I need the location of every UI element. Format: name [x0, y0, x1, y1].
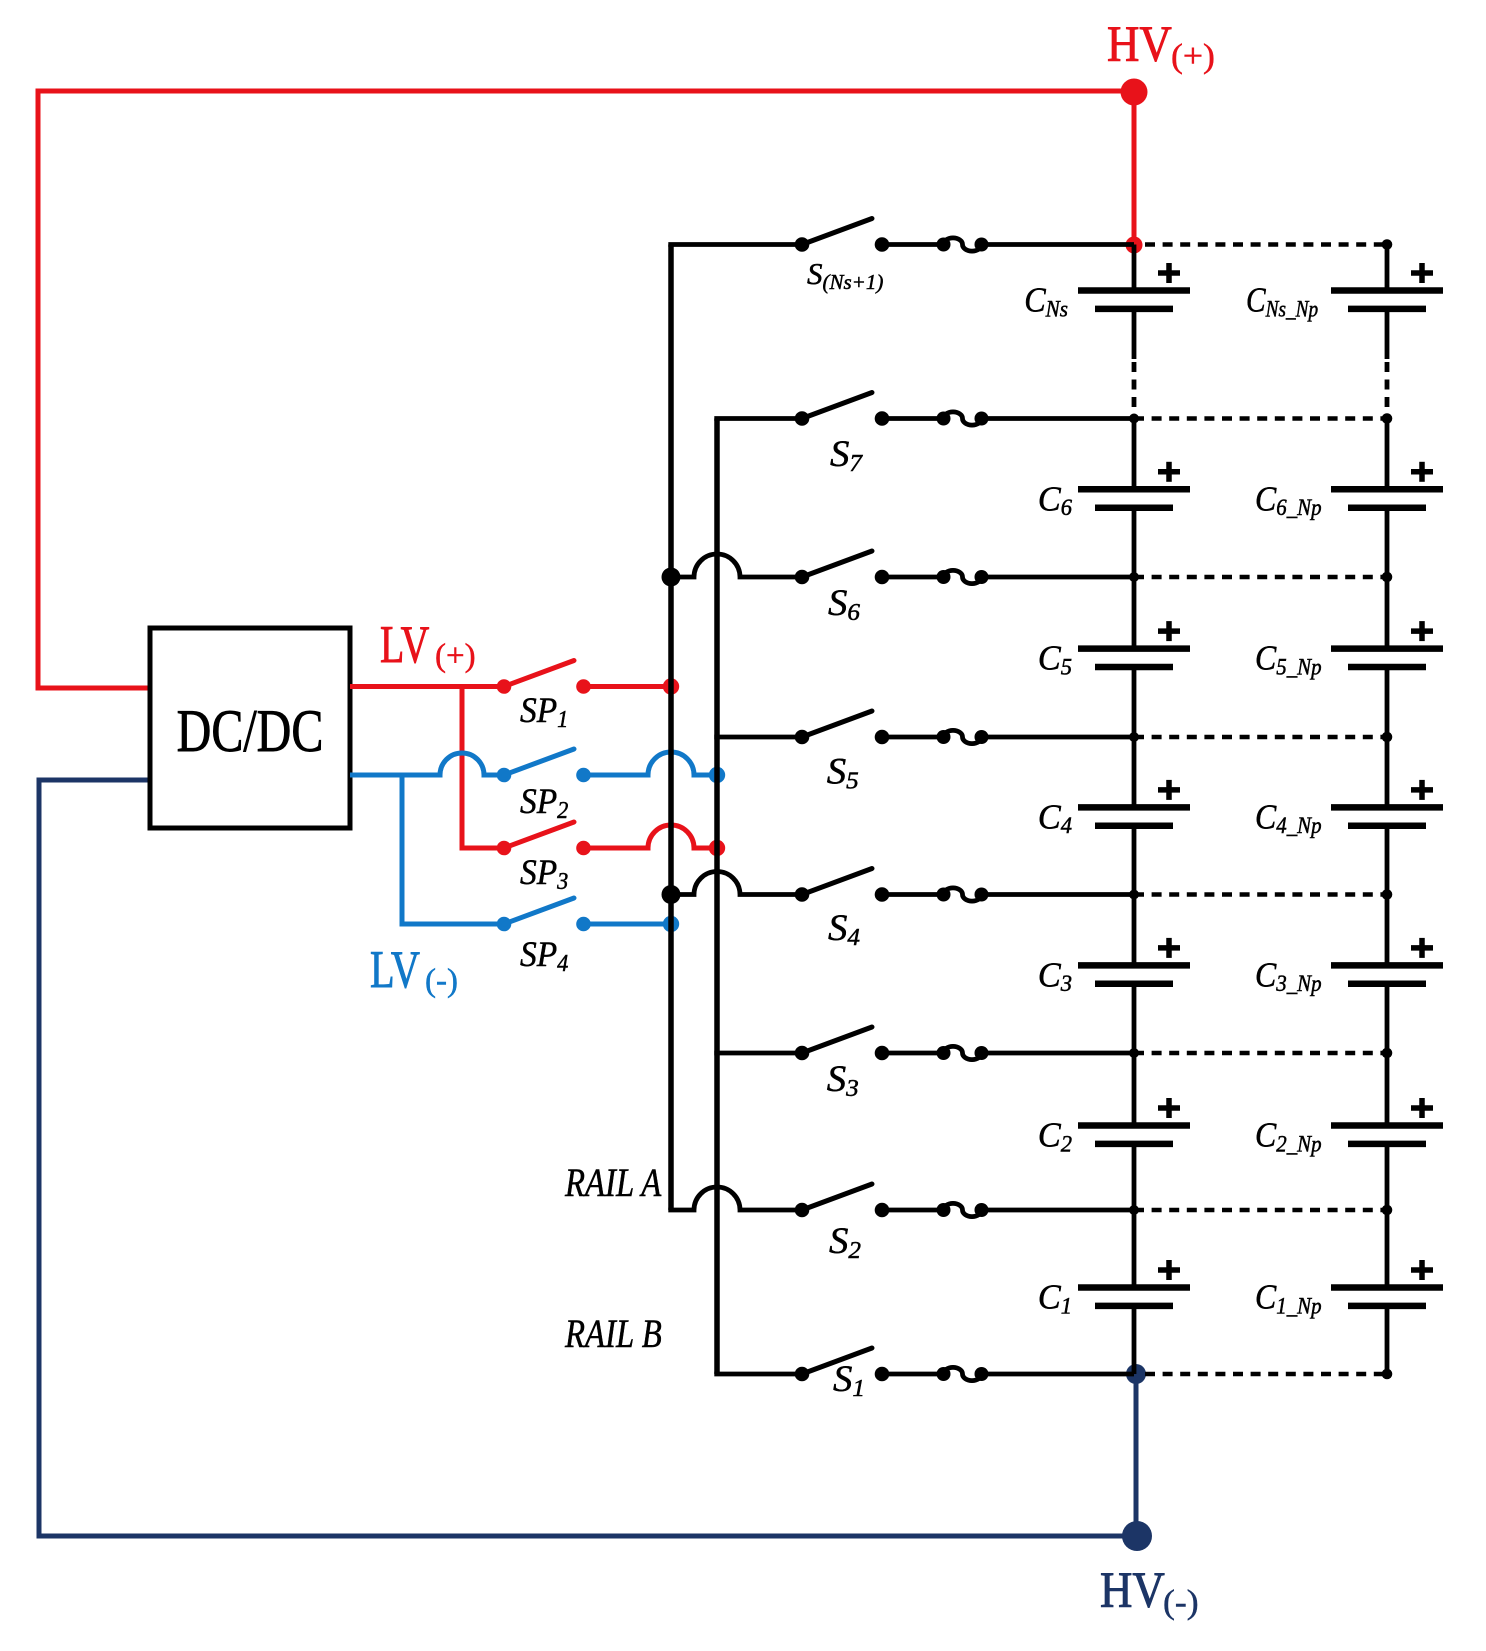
svg-text:SP3: SP3 — [520, 852, 568, 895]
wire HV+ drop to stack top — [1132, 92, 1137, 245]
wire RAIL B vertical bus — [714, 419, 720, 1375]
fuse row S3 — [937, 1046, 989, 1060]
capacitor C5 — [1078, 577, 1190, 737]
node row S6 stack junction — [1129, 572, 1139, 582]
capacitor C5_Np — [1331, 577, 1443, 737]
switch S5 — [795, 711, 890, 744]
wire SP2 to RAIL B (hop over RAIL A) — [584, 752, 718, 775]
wire dashed parallel link row S2 — [1134, 1208, 1387, 1213]
wire dashed parallel link row S4 — [1134, 892, 1387, 897]
svg-text:SP1: SP1 — [520, 690, 568, 733]
fuse row S1 — [937, 1367, 989, 1381]
svg-text:SP4: SP4 — [520, 934, 569, 977]
svg-text:S4: S4 — [828, 908, 860, 951]
wire SP3 to RAIL B (hop over RAIL A) — [584, 825, 718, 848]
node row S7 stack junction — [1129, 414, 1139, 424]
capacitor CNs_Np — [1331, 245, 1443, 419]
node row S4 parallel column junction — [1382, 889, 1393, 900]
switch SP3 — [497, 822, 591, 855]
fuse row S7 — [937, 412, 989, 426]
wire S6 fuse to series stack — [982, 575, 1135, 580]
switch S3 — [795, 1027, 890, 1060]
switch S(Ns+1) — [795, 219, 890, 252]
switch S4 — [795, 869, 890, 902]
wire RAIL A vertical bus — [668, 245, 674, 1211]
wire LV- from DC/DC to SP2 (hop over LV+ branch) — [350, 753, 504, 775]
wire row S7 left segment — [714, 416, 802, 421]
node SP2/RAIL B junction — [709, 767, 725, 783]
wire HV- riser from stack bottom — [1134, 1374, 1139, 1536]
wire dashed parallel link row S3 — [1134, 1051, 1387, 1056]
switch SP2 — [497, 749, 591, 782]
fuse row S6 — [937, 570, 989, 584]
svg-text:C1_Np: C1_Np — [1255, 1278, 1322, 1318]
capacitor C6_Np — [1331, 419, 1443, 578]
wire S3 fuse to series stack — [982, 1051, 1135, 1056]
capacitor C1_Np — [1331, 1210, 1443, 1374]
node row S6 parallel column junction — [1382, 572, 1393, 583]
node row S5 stack junction — [1129, 732, 1139, 742]
node row S3 parallel column junction — [1382, 1048, 1393, 1059]
node SP4/RAIL A junction — [663, 916, 679, 932]
fuse row S4 — [937, 888, 989, 902]
wire row S3 left segment — [714, 1051, 802, 1056]
wire row S2 left segment — [668, 1187, 802, 1210]
svg-text:HV: HV — [1107, 16, 1172, 72]
svg-text:S(Ns+1): S(Ns+1) — [807, 256, 883, 294]
svg-text:CNs_Np: CNs_Np — [1246, 280, 1318, 322]
wire S4 switch to fuse — [882, 892, 944, 897]
node stack top red junction — [1126, 237, 1143, 254]
wire LV+ from DC/DC to SP1 — [350, 684, 504, 689]
capacitor C2 — [1078, 1053, 1190, 1210]
wire LV- branch down to SP4 — [402, 775, 504, 924]
capacitor C4 — [1078, 737, 1190, 895]
svg-text:LV: LV — [380, 616, 429, 675]
wire S1 switch to fuse — [882, 1372, 944, 1377]
svg-text:SP2: SP2 — [520, 781, 569, 824]
svg-text:(-): (-) — [425, 963, 458, 999]
capacitor C3 — [1078, 895, 1190, 1054]
switch SP1 — [497, 661, 591, 694]
svg-text:S6: S6 — [828, 583, 861, 626]
svg-text:(+): (+) — [435, 638, 476, 674]
node HV(-) terminal dot — [1122, 1521, 1152, 1551]
switch S1 — [795, 1348, 890, 1381]
wire S7 switch to fuse — [882, 416, 944, 421]
node row S2 parallel column junction — [1382, 1205, 1393, 1216]
wire row S1 left segment — [714, 1372, 802, 1377]
node SP1/RAIL A junction — [663, 678, 679, 694]
svg-text:C6_Np: C6_Np — [1255, 480, 1322, 520]
wire row S4 left segment — [671, 872, 802, 895]
svg-text:HV: HV — [1100, 1562, 1165, 1618]
wire HV- loop (DC/DC left navy pin, down left side, across bottom) — [39, 780, 1137, 1536]
node S4/RAIL A junction — [662, 885, 681, 904]
svg-text:S3: S3 — [827, 1059, 859, 1102]
switch SP4 — [497, 898, 591, 931]
fuse row S5 — [937, 730, 989, 744]
wire S4 fuse to series stack — [982, 892, 1135, 897]
svg-text:C6: C6 — [1038, 480, 1073, 520]
svg-text:S1: S1 — [833, 1359, 865, 1402]
wire row S5 left segment — [714, 735, 802, 740]
node row S2 stack junction — [1129, 1205, 1139, 1215]
wire row S(Ns+1) left segment — [668, 242, 802, 247]
svg-text:C3: C3 — [1038, 956, 1072, 996]
wire SP4 to RAIL A — [584, 922, 672, 927]
svg-text:C5_Np: C5_Np — [1255, 639, 1322, 679]
wire dashed parallel link row S1 — [1145, 1372, 1387, 1377]
wire S2 fuse to series stack — [982, 1208, 1135, 1213]
node S6/RAIL A junction — [662, 568, 681, 587]
node HV(+) terminal dot — [1121, 79, 1148, 106]
svg-text:C4: C4 — [1038, 798, 1072, 838]
wire S(Ns+1) fuse to series stack — [982, 242, 1135, 247]
svg-text:S2: S2 — [829, 1221, 861, 1264]
capacitor C6 — [1078, 419, 1190, 578]
wire SP1 to RAIL A — [584, 684, 672, 689]
DC/DC converter box U1 — [150, 628, 350, 828]
svg-text:C1: C1 — [1038, 1278, 1072, 1318]
capacitor C3_Np — [1331, 895, 1443, 1054]
wire dashed parallel link row S7 — [1134, 416, 1387, 421]
node row S1 parallel column junction — [1382, 1369, 1393, 1380]
svg-text:LV: LV — [370, 941, 420, 1000]
wire dashed parallel link row S(Ns+1) — [1145, 242, 1387, 247]
svg-text:S5: S5 — [827, 751, 859, 794]
wire S5 switch to fuse — [882, 735, 944, 740]
svg-text:C4_Np: C4_Np — [1255, 798, 1322, 838]
wire S3 switch to fuse — [882, 1051, 944, 1056]
capacitor CNs — [1078, 245, 1190, 419]
svg-text:(+): (+) — [1171, 37, 1215, 75]
capacitor C2_Np — [1331, 1053, 1443, 1210]
wire S6 switch to fuse — [882, 575, 944, 580]
switch S7 — [795, 393, 890, 426]
wire S(Ns+1) switch to fuse — [882, 242, 944, 247]
svg-text:C2_Np: C2_Np — [1255, 1116, 1322, 1156]
wire S5 fuse to series stack — [982, 735, 1135, 740]
svg-text:C5: C5 — [1038, 639, 1072, 679]
wire dashed parallel link row S6 — [1134, 575, 1387, 580]
svg-text:C3_Np: C3_Np — [1255, 956, 1322, 996]
node row S7 parallel column junction — [1382, 413, 1393, 424]
svg-text:S7: S7 — [830, 434, 864, 477]
switch S6 — [795, 551, 890, 584]
svg-text:RAIL B: RAIL B — [564, 1311, 662, 1356]
switch S2 — [795, 1184, 890, 1217]
capacitor C1 — [1078, 1210, 1190, 1374]
wire row S6 left segment — [671, 554, 802, 577]
node SP3/RAIL B junction — [709, 840, 725, 856]
node row S4 stack junction — [1129, 890, 1139, 900]
wire HV+ loop (DC/DC left red pin, up left side, across top) — [38, 91, 1134, 688]
svg-text:(-): (-) — [1163, 1583, 1199, 1621]
svg-text:C2: C2 — [1038, 1116, 1072, 1156]
wire S1 fuse to series stack — [982, 1372, 1135, 1377]
wire dashed parallel link row S5 — [1134, 735, 1387, 740]
svg-text:DC/DC: DC/DC — [177, 698, 324, 764]
capacitor C4_Np — [1331, 737, 1443, 895]
wire S7 fuse to series stack — [982, 416, 1135, 421]
node stack bottom navy junction — [1126, 1364, 1146, 1384]
node row S(Ns+1) parallel column junction — [1382, 239, 1393, 250]
fuse row S2 — [937, 1203, 989, 1217]
wire LV+ branch down to SP3 — [462, 687, 504, 849]
svg-text:CNs: CNs — [1024, 281, 1068, 321]
svg-text:RAIL A: RAIL A — [564, 1160, 662, 1205]
node row S3 stack junction — [1129, 1048, 1139, 1058]
wire S2 switch to fuse — [882, 1208, 944, 1213]
node row S5 parallel column junction — [1382, 732, 1393, 743]
fuse row S(Ns+1) — [937, 238, 989, 252]
